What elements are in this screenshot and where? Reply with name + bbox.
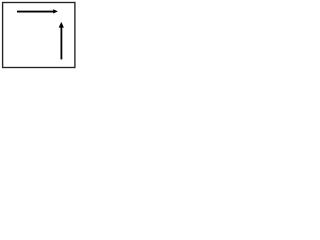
wire: vertical arrow shaft — [60, 27, 62, 59]
wire: horizontal arrow shaft — [17, 11, 54, 13]
vertical arrowhead pointing up — [59, 22, 64, 28]
border frame rectangle — [3, 3, 75, 68]
horizontal arrowhead pointing right — [53, 9, 58, 13]
